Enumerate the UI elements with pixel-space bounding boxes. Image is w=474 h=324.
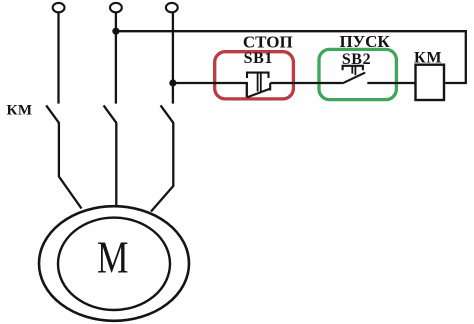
coil KM — [416, 65, 445, 100]
contact KM.2 — [104, 105, 117, 122]
wire L3 to motor — [151, 122, 173, 211]
node control tap L2 — [112, 28, 119, 35]
terminal L3 — [166, 3, 178, 12]
wire control upper run — [116, 31, 466, 83]
wire SB1 to SB2 — [270, 82, 342, 84]
motor M outer shell — [39, 206, 189, 321]
wire phase L1 top — [57, 12, 59, 103]
svg-text:M: M — [97, 232, 129, 283]
wire SB2 to KM coil — [367, 82, 415, 84]
contact KM.1 — [46, 105, 59, 122]
svg-text:SB1: SB1 — [244, 50, 273, 67]
push-button SB1 NC contact — [247, 89, 270, 98]
wire L1 to motor — [59, 122, 82, 208]
svg-text:СТОП: СТОП — [243, 32, 293, 51]
wire phase L3 top — [172, 12, 174, 103]
motor M inner shell — [58, 218, 170, 310]
svg-text:ПУСК: ПУСК — [339, 32, 390, 51]
stop button frame (red highlight) — [215, 52, 294, 99]
svg-text:КМ: КМ — [7, 102, 33, 118]
terminal L1 — [53, 3, 65, 12]
push-button SB2 plunger — [343, 66, 363, 70]
wire L3 to SB1 — [173, 83, 247, 98]
start button frame (green highlight) — [319, 49, 396, 99]
push-button SB1 plunger — [247, 73, 269, 78]
node control tap L3 — [169, 79, 176, 86]
push-button SB2 NO contact — [342, 73, 365, 84]
wire phase L2 top — [115, 12, 117, 103]
contact KM.3 — [161, 105, 174, 122]
terminal L2 — [110, 3, 122, 12]
wire L2 to motor — [115, 122, 117, 205]
